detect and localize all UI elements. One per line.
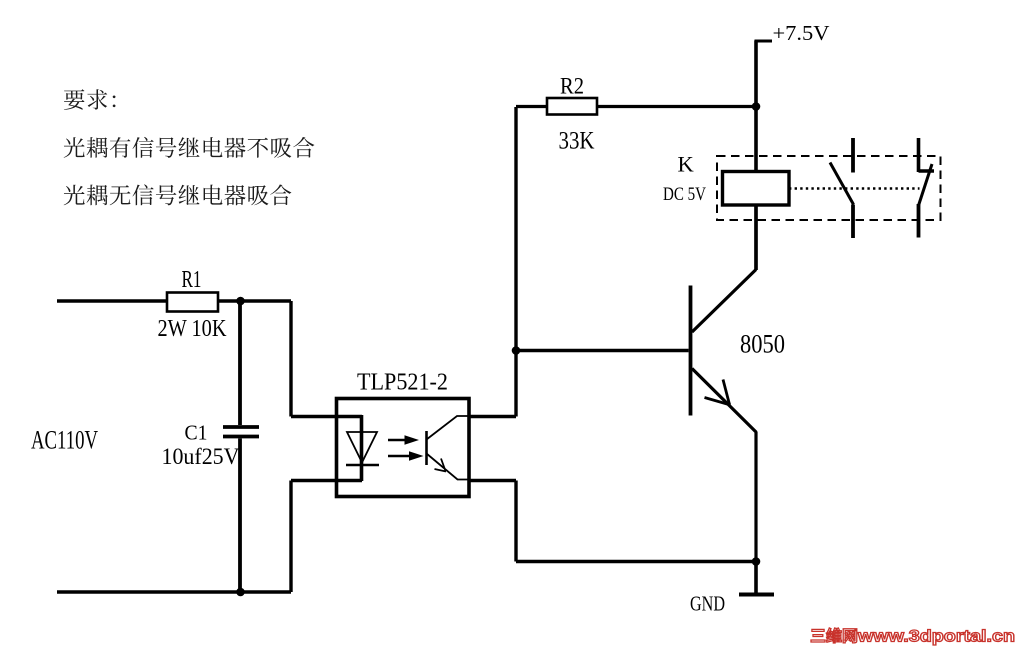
note line 3: 光耦无信号继电器吸合 [64, 184, 292, 205]
watermark 三维网www.3dportal.cn [811, 627, 1015, 646]
phototransistor emitter with arrow [427, 454, 470, 480]
wire opto emitter to ground rail [469, 481, 756, 562]
relay contact S1 blade [830, 163, 854, 205]
node junction dot C1 bottom [236, 588, 245, 597]
node junction dot base rail [512, 346, 521, 355]
wire opto collector to base node [469, 415, 516, 418]
relay contact S2 blade [919, 164, 933, 206]
wire +7.5V tick [755, 40, 773, 43]
svg-text:2W 10K: 2W 10K [158, 315, 227, 342]
svg-text:33K: 33K [559, 128, 595, 155]
wire C1 branch vertical [238, 301, 242, 592]
svg-text:AC110V: AC110V [31, 426, 98, 455]
svg-text:+7.5V: +7.5V [773, 21, 830, 45]
wire base feed [516, 349, 689, 352]
svg-text:www.3dportal.cn: www.3dportal.cn [857, 627, 1015, 646]
transistor Q1 emitter arrow [705, 380, 731, 406]
node junction dot supply-R2 [752, 102, 761, 111]
phototransistor base bar [425, 431, 428, 465]
svg-text:TLP521-2: TLP521-2 [357, 370, 448, 396]
svg-text:8050: 8050 [740, 330, 785, 359]
svg-text:DC 5V: DC 5V [663, 184, 706, 205]
wire coil to collector [754, 205, 758, 270]
wire AC neutral bottom [57, 590, 291, 593]
node junction dot R1-C1 top [236, 297, 245, 306]
note line 2: 光耦有信号继电器不吸合 [64, 137, 315, 158]
phototransistor collector [427, 416, 470, 440]
relay contact S2 fixed terminal with foot [919, 138, 935, 172]
light arrow lower [388, 451, 424, 460]
LED internal vertical wire [360, 415, 364, 481]
transistor Q1 emitter branch [692, 369, 757, 562]
wire R2 left vertical rail [514, 107, 517, 417]
transistor Q1 collector branch [692, 205, 756, 332]
ground symbol [739, 562, 774, 595]
transistor Q1 8050 base bar [689, 286, 693, 416]
svg-text:10uf25V: 10uf25V [162, 444, 240, 469]
wire AC live top [57, 299, 291, 302]
LED triangle (anode top, cathode bottom) [347, 432, 377, 463]
wire +7.5V supply vertical [754, 41, 758, 172]
wire top branch down to optocoupler anode [291, 301, 362, 417]
node junction dot ground rail [752, 557, 761, 566]
relay K dashed enclosure [717, 156, 941, 220]
resistor R2 [547, 98, 597, 115]
light arrow upper [388, 435, 419, 444]
optocoupler U1 TLP521-2 package box [337, 399, 470, 497]
relay contact S2 moving terminal [917, 204, 921, 238]
svg-text:GND: GND [690, 592, 725, 616]
relay contact S1 moving terminal [851, 205, 855, 239]
svg-text:C1: C1 [185, 421, 208, 445]
note line 1: 要求： [64, 89, 116, 110]
capacitor C1 plates [223, 427, 259, 437]
resistor R2 wires [516, 105, 756, 108]
wire bottom branch up to optocoupler cathode [291, 481, 362, 593]
svg-text:R1: R1 [182, 267, 202, 293]
resistor R1 [167, 293, 218, 312]
LED cathode bar [346, 464, 379, 467]
relay linkage dotted line [789, 187, 920, 189]
svg-text:R2: R2 [560, 74, 584, 100]
relay contact S1 fixed terminal [851, 138, 855, 173]
relay K coil [723, 172, 790, 206]
svg-text:K: K [678, 152, 695, 177]
